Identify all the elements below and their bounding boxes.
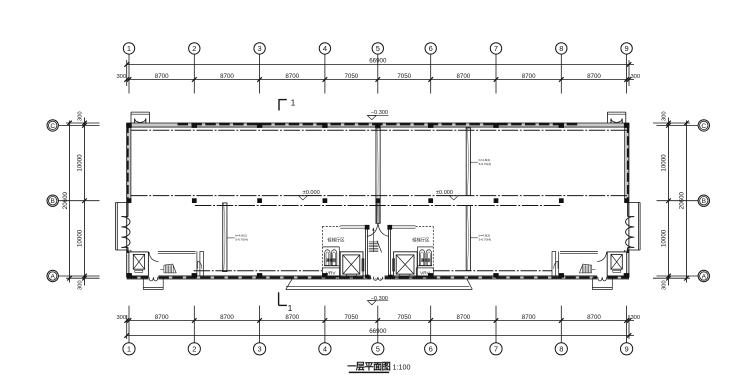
bottom grid bubbles 1-9 bbox=[123, 343, 633, 355]
north-west entrance canopy with double door bbox=[130, 112, 132, 123]
svg-text:10000: 10000 bbox=[77, 154, 84, 172]
partition wall grid5 upper band bbox=[375, 128, 377, 223]
svg-text:VRV: VRV bbox=[326, 270, 337, 276]
columns on line A bbox=[126, 273, 629, 278]
partition label lower-left bbox=[227, 237, 235, 239]
east bay window with folding partition bbox=[639, 203, 641, 251]
south-east elevator bbox=[607, 252, 627, 276]
svg-text:8: 8 bbox=[559, 44, 563, 53]
south-west stair room walls and doors bbox=[149, 251, 204, 276]
north wall face lines bbox=[127, 122, 629, 124]
columns on line B bbox=[127, 198, 629, 203]
partition label upper bbox=[470, 161, 478, 163]
left grid bubbles C B A bbox=[47, 120, 58, 282]
core top wall left bbox=[340, 225, 366, 227]
left dimension texts bbox=[62, 111, 84, 290]
svg-text:8700: 8700 bbox=[522, 314, 536, 321]
svg-text:7050: 7050 bbox=[344, 73, 358, 80]
top extension line right wall edge bbox=[628, 60, 630, 86]
svg-text:3: 3 bbox=[258, 345, 262, 354]
south-west entrance porch bbox=[142, 277, 144, 289]
svg-text:5-6.70(4): 5-6.70(4) bbox=[479, 162, 492, 166]
svg-text:6: 6 bbox=[429, 345, 433, 354]
right dimension segment line bbox=[668, 118, 670, 286]
svg-text:300: 300 bbox=[662, 111, 668, 121]
svg-text:2: 2 bbox=[192, 44, 196, 53]
corridor south double door bbox=[373, 277, 382, 281]
top grid extension lines 1-9 bbox=[129, 54, 627, 93]
svg-text:A: A bbox=[702, 273, 707, 280]
svg-text:5-6.70(4): 5-6.70(4) bbox=[235, 238, 248, 242]
svg-text:10000: 10000 bbox=[661, 154, 668, 172]
top dimension ticks bbox=[124, 62, 631, 82]
svg-text:7: 7 bbox=[494, 44, 498, 53]
svg-text:C: C bbox=[701, 123, 706, 130]
west wall band fill bbox=[127, 123, 131, 252]
east wall face lines bbox=[628, 123, 630, 277]
north wall interior dash-dot overhang line bbox=[131, 129, 627, 131]
svg-text:VRV: VRV bbox=[420, 270, 431, 276]
line B lower dash-dot bbox=[195, 205, 562, 207]
east wall thick dashed bbox=[627, 124, 629, 202]
south-east entrance double door bbox=[598, 277, 607, 281]
svg-text:5-6.70(4): 5-6.70(4) bbox=[479, 237, 492, 241]
svg-text:7050: 7050 bbox=[397, 73, 411, 80]
bottom grid extension lines 1-9 bbox=[129, 306, 627, 343]
right dimension total line 20600 bbox=[686, 121, 688, 283]
line B upper dash-dot bbox=[131, 195, 627, 197]
top dimension total line 66900 bbox=[126, 64, 634, 66]
top dimension texts bbox=[116, 58, 640, 80]
svg-text:8700: 8700 bbox=[456, 314, 470, 321]
svg-text:7: 7 bbox=[494, 345, 498, 354]
svg-text:一层平面图: 一层平面图 bbox=[347, 362, 390, 372]
east wall band fill bbox=[625, 123, 628, 252]
left dimension ticks bbox=[67, 121, 87, 281]
svg-text:10000: 10000 bbox=[661, 229, 668, 247]
svg-text:4: 4 bbox=[323, 345, 327, 354]
south-east entrance porch bbox=[591, 277, 593, 289]
corridor west wall bbox=[365, 228, 367, 276]
core top columns bbox=[365, 225, 370, 230]
svg-text:300: 300 bbox=[78, 111, 84, 121]
right dimension texts bbox=[661, 111, 686, 290]
svg-text:8700: 8700 bbox=[155, 73, 169, 80]
section marker 1 south bbox=[278, 292, 280, 305]
svg-text:300: 300 bbox=[116, 315, 126, 321]
bottom dimension segment line bbox=[126, 320, 634, 322]
left dimension segment line bbox=[84, 118, 86, 286]
right grid bubbles C B A bbox=[698, 120, 709, 282]
svg-text:蹲便器: 蹲便器 bbox=[421, 258, 431, 263]
svg-text:候梯厅区: 候梯厅区 bbox=[412, 236, 430, 243]
core dashed lobby boundary right bbox=[416, 226, 434, 228]
svg-text:C: C bbox=[50, 123, 55, 130]
south wall with entrance gaps bbox=[127, 276, 629, 279]
svg-text:9: 9 bbox=[625, 44, 629, 53]
svg-text:66900: 66900 bbox=[369, 58, 387, 65]
core west toilet wall bbox=[322, 246, 339, 248]
top extension line left wall edge bbox=[126, 60, 128, 86]
left dimension total line 20600 bbox=[69, 121, 71, 283]
svg-text:5: 5 bbox=[376, 345, 380, 354]
partition wall x225 lower band bbox=[222, 203, 224, 272]
svg-text:5: 5 bbox=[376, 44, 380, 53]
partition wall x468 lower band bbox=[465, 206, 467, 271]
core east toilet wall bbox=[418, 246, 434, 248]
partition wall x468 upper band bbox=[465, 128, 467, 196]
core dashed lobby boundary left bbox=[322, 226, 340, 228]
bottom dimension ticks bbox=[124, 318, 631, 338]
svg-text:候梯厅区: 候梯厅区 bbox=[327, 236, 345, 243]
svg-text:3: 3 bbox=[258, 44, 262, 53]
svg-text:2: 2 bbox=[192, 345, 196, 354]
west wall thick dashed bbox=[127, 124, 129, 202]
bottom extension line left wall edge bbox=[126, 315, 128, 339]
svg-text:8700: 8700 bbox=[220, 73, 234, 80]
south-east corner column bbox=[624, 273, 629, 277]
svg-text:8700: 8700 bbox=[155, 314, 169, 321]
svg-text:B: B bbox=[50, 198, 55, 205]
south-west elevator bbox=[129, 252, 149, 276]
corridor east wall bbox=[388, 228, 390, 276]
south wall interior dash-dot overhang line bbox=[194, 270, 323, 272]
core west toilet fixtures bbox=[325, 250, 330, 266]
svg-text:8700: 8700 bbox=[522, 73, 536, 80]
svg-text:B: B bbox=[702, 198, 707, 205]
svg-text:300: 300 bbox=[662, 280, 668, 290]
svg-text:A: A bbox=[50, 273, 55, 280]
core west VRV room bbox=[322, 268, 339, 277]
svg-text:66900: 66900 bbox=[369, 328, 387, 335]
svg-text:10000: 10000 bbox=[77, 229, 84, 247]
partition label lower-right bbox=[470, 237, 478, 239]
svg-text:8: 8 bbox=[559, 345, 563, 354]
left extension lines A B C and wall edges bbox=[59, 123, 100, 278]
right dimension ticks bbox=[666, 121, 689, 281]
svg-text:20600: 20600 bbox=[62, 191, 69, 209]
core south wall bbox=[322, 276, 340, 278]
svg-text:6: 6 bbox=[429, 44, 433, 53]
svg-text:1: 1 bbox=[127, 44, 131, 53]
core top wall right bbox=[389, 225, 415, 227]
west bay window with folding partition bbox=[115, 203, 117, 251]
core elevator east bbox=[394, 252, 418, 277]
svg-text:300: 300 bbox=[78, 280, 84, 290]
top dimension segment line bbox=[126, 79, 634, 81]
wall band openings bbox=[148, 276, 158, 280]
section marker 1 north bbox=[279, 99, 287, 101]
svg-text:4: 4 bbox=[323, 44, 327, 53]
svg-text:8700: 8700 bbox=[456, 73, 470, 80]
top grid bubbles 1-9 bbox=[123, 43, 632, 54]
svg-text:300: 300 bbox=[630, 315, 640, 321]
columns on line C bbox=[126, 123, 629, 128]
south terrace landing bbox=[286, 278, 473, 290]
svg-text:8700: 8700 bbox=[587, 73, 601, 80]
svg-text:8700: 8700 bbox=[587, 314, 601, 321]
central stair up with arrow bbox=[369, 227, 382, 252]
svg-text:7050: 7050 bbox=[397, 314, 411, 321]
corridor north double door bbox=[377, 203, 379, 223]
core east toilet fixtures bbox=[419, 250, 424, 266]
svg-text:8700: 8700 bbox=[220, 314, 234, 321]
south-west corner column bbox=[127, 273, 132, 277]
bottom dimension texts bbox=[116, 314, 640, 335]
south-east stairs bbox=[579, 264, 595, 273]
svg-text:9: 9 bbox=[625, 345, 629, 354]
west wall face lines bbox=[126, 123, 128, 277]
north wall thick dashed curtain wall bbox=[178, 123, 579, 126]
right extension lines A B C and wall edges bbox=[653, 123, 698, 278]
svg-text:1:100: 1:100 bbox=[393, 362, 411, 371]
svg-text:蹲便器: 蹲便器 bbox=[326, 258, 336, 263]
svg-text:7050: 7050 bbox=[344, 314, 358, 321]
svg-text:8700: 8700 bbox=[285, 314, 299, 321]
svg-text:20600: 20600 bbox=[679, 191, 686, 209]
core elevator west bbox=[340, 252, 363, 277]
south-west entrance double door bbox=[149, 277, 158, 281]
core east VRV room bbox=[416, 268, 433, 277]
bottom dimension total line 66900 bbox=[126, 335, 634, 337]
svg-text:300: 300 bbox=[630, 74, 640, 80]
bottom extension line right wall edge bbox=[628, 315, 630, 339]
south wall band fill bbox=[127, 276, 629, 279]
svg-text:1: 1 bbox=[291, 98, 296, 108]
svg-text:1: 1 bbox=[127, 345, 131, 354]
svg-text:1: 1 bbox=[288, 303, 293, 313]
north wall band fill bbox=[127, 123, 629, 127]
south-east stair room walls and doors bbox=[552, 251, 607, 276]
svg-text:300: 300 bbox=[116, 74, 126, 80]
south-west stairs bbox=[160, 264, 176, 273]
north-east entrance canopy with double door bbox=[606, 112, 608, 123]
svg-text:8700: 8700 bbox=[285, 73, 299, 80]
